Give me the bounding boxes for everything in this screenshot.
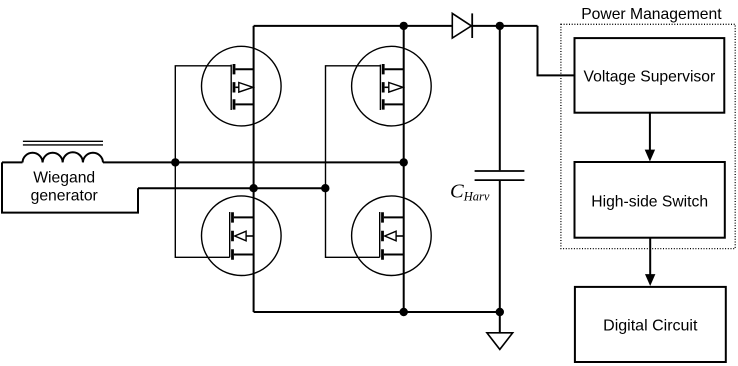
Q2 body contact with arrow <box>385 86 389 88</box>
ground symbol <box>487 333 513 350</box>
arrow VS to HSS <box>645 113 655 162</box>
Q3 gate line <box>229 212 231 257</box>
wire left bridge midpoint vertical <box>253 26 255 312</box>
inductor core line 2 <box>23 144 103 146</box>
svg-text:Voltage Supervisor: Voltage Supervisor <box>584 69 716 86</box>
block: Voltage Supervisor <box>575 38 725 113</box>
Q2 source contact <box>385 103 404 105</box>
Q4 gate line <box>379 212 381 257</box>
Wiegand generator box outline <box>2 162 138 212</box>
Q1 drain contact <box>235 68 253 70</box>
Q4 body contact with arrow <box>396 235 404 237</box>
inductor L1 coil <box>23 152 104 162</box>
Power Management dotted enclosure <box>561 24 735 248</box>
wire ground stub <box>499 312 501 333</box>
wire top rail right segment to corner <box>472 25 537 27</box>
wire capacitor branch upper <box>499 26 501 170</box>
capacitor C_Harv <box>475 171 525 180</box>
block: Digital Circuit <box>575 287 726 362</box>
junction node: top rail / Q2 drain <box>400 22 408 30</box>
svg-text:High-side Switch: High-side Switch <box>591 193 708 210</box>
svg-text:Wiegand: Wiegand <box>33 170 95 187</box>
junction node: gen top / right midpoint <box>400 158 408 166</box>
wire bottom rail <box>254 311 500 313</box>
transistor Q4 (bottom-right n-MOSFET) <box>352 196 432 276</box>
Q4 source contact <box>384 254 404 256</box>
Q3 channel bars <box>231 212 234 260</box>
Q2 gate line <box>379 65 381 110</box>
svg-text:Power Management: Power Management <box>581 6 722 23</box>
Q2 drain contact <box>385 68 404 70</box>
Q1 source contact <box>235 103 253 105</box>
block: High-side Switch <box>575 162 725 238</box>
junction node: bottom rail / ground <box>496 308 504 316</box>
junction node: bottom rail / Q4 source <box>400 308 408 316</box>
Q2 channel bars <box>382 64 385 110</box>
transistor Q3 (bottom-left n-MOSFET) <box>202 196 282 276</box>
Q2 body circle <box>352 46 432 126</box>
Q1 body circle <box>202 46 282 126</box>
transistor Q2 (top-right p-MOSFET) <box>352 46 432 126</box>
Q4 drain contact <box>384 216 404 218</box>
svg-text:Digital Circuit: Digital Circuit <box>603 318 698 335</box>
Q4 channel bars <box>381 212 384 260</box>
Q3 source contact <box>234 254 254 256</box>
wire left gate cross-coupling vertical <box>175 66 231 257</box>
wire right gate cross-coupling vertical <box>326 66 381 257</box>
transistor Q1 (top-left p-MOSFET) <box>202 46 282 126</box>
junction node: gen bottom / left midpoint <box>249 184 257 192</box>
Q1 channel bars <box>233 64 236 110</box>
junction node: top rail / capacitor branch <box>496 22 504 30</box>
wire generator bottom terminal (node B) <box>138 187 325 189</box>
wire generator top terminal (node A) <box>103 161 404 163</box>
Q3 drain contact <box>234 216 254 218</box>
svg-text:generator: generator <box>31 188 98 205</box>
Q1 gate line <box>230 65 232 110</box>
arrow HSS to Digital Circuit <box>645 238 655 286</box>
Q3 body contact with arrow <box>246 235 254 237</box>
wire right bridge midpoint vertical <box>403 26 405 312</box>
wire top rail left segment <box>254 25 453 27</box>
label "Wiegand generator" <box>31 170 98 205</box>
wire from top rail to Voltage Supervisor <box>538 26 575 76</box>
junction node: gen top / left gates <box>171 158 179 166</box>
inductor core line 1 <box>23 140 103 142</box>
Q4 body circle <box>352 196 432 276</box>
wire capacitor branch lower <box>499 181 501 312</box>
svg-text:CHarv: CHarv <box>450 181 490 204</box>
wire generator box top-left segment <box>2 161 23 163</box>
Q1 body contact with arrow <box>235 86 238 88</box>
diode D1 <box>452 13 472 38</box>
Q3 body circle <box>202 196 282 276</box>
junction node: gen bottom / right gates <box>321 184 329 192</box>
